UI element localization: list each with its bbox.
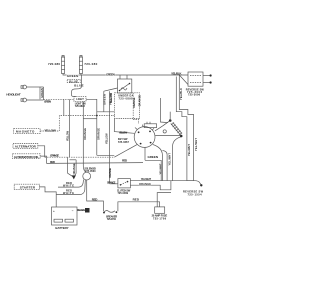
svg-text:ORANGE: ORANGE <box>72 163 76 174</box>
svg-text:YELLOW: YELLOW <box>119 130 128 134</box>
svg-text:GREEN: GREEN <box>44 100 51 104</box>
svg-text:ORANGE: ORANGE <box>132 97 136 108</box>
svg-text:YEL/WHT: YEL/WHT <box>141 177 152 181</box>
svg-text:GREEN: GREEN <box>106 72 115 76</box>
svg-text:RED: RED <box>133 198 140 202</box>
svg-text:GREEN: GREEN <box>40 88 44 98</box>
svg-text:725-0898: 725-0898 <box>119 97 134 101</box>
svg-text:725-1704: 725-1704 <box>107 217 117 221</box>
svg-text:YEL/WHT: YEL/WHT <box>159 163 163 174</box>
svg-text:STARTER: STARTER <box>20 186 36 190</box>
svg-text:ORANGE: ORANGE <box>107 180 116 184</box>
svg-text:BATTERY: BATTERY <box>55 226 68 230</box>
svg-text:BLUE: BLUE <box>74 83 84 87</box>
svg-text:YEL/BLK: YEL/BLK <box>171 71 182 75</box>
svg-text:ORANGE: ORANGE <box>97 128 101 140</box>
svg-text:YEL/BLK: YEL/BLK <box>179 88 183 100</box>
svg-text:GREEN: GREEN <box>103 94 107 105</box>
svg-text:YELLOW: YELLOW <box>109 93 113 105</box>
svg-text:ORANGE: ORANGE <box>50 153 59 157</box>
svg-text:ORANGE: ORANGE <box>138 95 142 107</box>
svg-text:MAGNETO: MAGNETO <box>16 130 35 134</box>
svg-text:725-0893: 725-0893 <box>75 104 86 108</box>
svg-text:RED: RED <box>92 197 98 201</box>
svg-text:725-0267: 725-0267 <box>118 140 130 144</box>
svg-text:−: − <box>72 209 74 213</box>
svg-text:ALTERNATOR COIL: ALTERNATOR COIL <box>14 155 39 159</box>
svg-text:ORANGE: ORANGE <box>139 182 151 186</box>
svg-text:YELLOW: YELLOW <box>44 129 56 133</box>
svg-text:720-080: 720-080 <box>84 62 97 66</box>
svg-text:BLACK: BLACK <box>77 208 85 212</box>
svg-text:720-080: 720-080 <box>48 62 60 66</box>
svg-text:RED: RED <box>50 160 56 164</box>
svg-text:YELLOW: YELLOW <box>65 130 69 141</box>
svg-text:725-0530: 725-0530 <box>85 169 96 173</box>
svg-text:YEL/WHT: YEL/WHT <box>168 153 172 166</box>
svg-text:ORANGE: ORANGE <box>108 168 112 178</box>
svg-text:YEL/WHT: YEL/WHT <box>194 138 198 151</box>
svg-text:+: + <box>53 209 55 213</box>
svg-text:ALTERNATOR: ALTERNATOR <box>15 145 37 149</box>
svg-text:ORANGE: ORANGE <box>83 128 87 140</box>
svg-text:725-0469: 725-0469 <box>118 191 129 195</box>
svg-text:LIGHT: LIGHT <box>76 97 84 101</box>
svg-text:GREEN: GREEN <box>148 155 159 159</box>
svg-text:725-1709: 725-1709 <box>153 216 167 220</box>
svg-text:725-1554: 725-1554 <box>188 192 203 196</box>
svg-text:HEADLIGHT: HEADLIGHT <box>6 92 20 96</box>
svg-text:YELLOW: YELLOW <box>105 133 109 144</box>
svg-text:725-3006: 725-3006 <box>188 92 201 96</box>
svg-text:GREEN: GREEN <box>67 74 79 78</box>
svg-text:RED: RED <box>122 159 128 163</box>
svg-text:YEL/WHT: YEL/WHT <box>187 144 191 156</box>
